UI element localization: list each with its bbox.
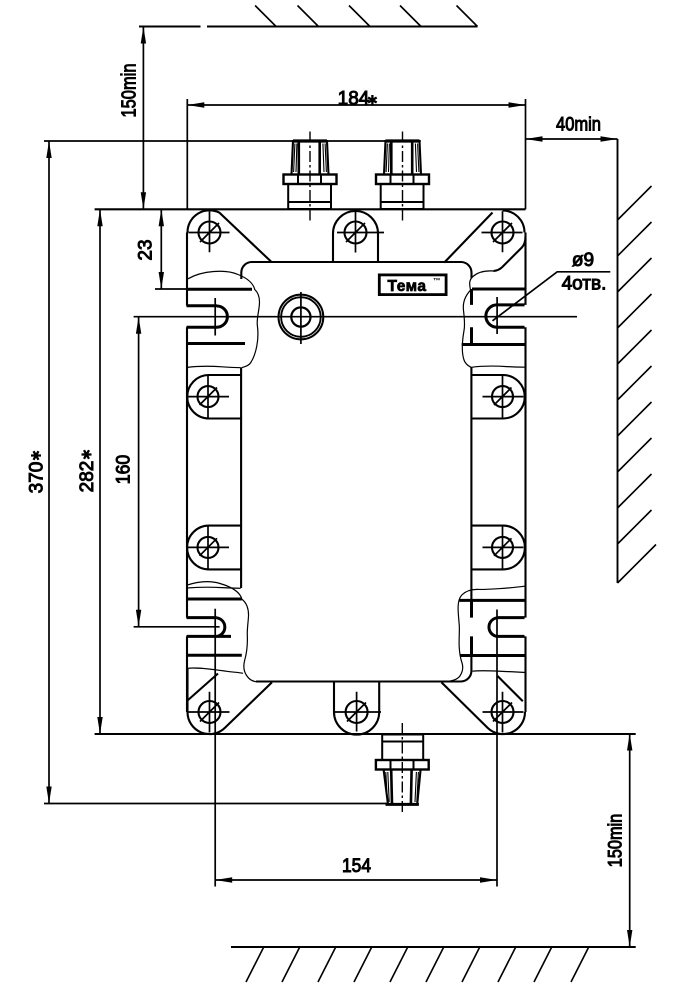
svg-text:370: 370 <box>27 462 48 494</box>
lid left edge <box>240 368 242 589</box>
dimension 184* <box>187 99 525 209</box>
slot tab upper-right <box>462 289 525 345</box>
corner lug top-right <box>444 211 525 272</box>
corner lug bottom-right <box>442 676 526 734</box>
svg-text:160: 160 <box>114 455 135 485</box>
center lug top <box>333 211 378 262</box>
lid right edge <box>470 367 472 600</box>
hole side left upper <box>198 386 219 407</box>
dimension 154 <box>215 609 497 887</box>
hole bottom-left <box>199 701 221 723</box>
slot tab lower-left <box>187 599 242 655</box>
box top edge <box>95 208 526 210</box>
side lug right upper <box>471 375 524 419</box>
lid bottom edge with corner <box>256 656 471 682</box>
cable gland bottom <box>376 723 429 814</box>
side lug left lower <box>187 526 241 570</box>
svg-text:154: 154 <box>342 856 371 877</box>
hole side right upper <box>492 386 513 407</box>
side lug left upper <box>187 375 240 419</box>
boss circle <box>279 295 324 340</box>
box bottom edge <box>95 733 636 735</box>
dimension 150min top <box>142 27 144 210</box>
hole bottom-right <box>492 701 514 723</box>
slot tab upper-left <box>187 289 253 343</box>
svg-text:282: 282 <box>77 461 98 493</box>
dimension 23 <box>155 209 187 289</box>
box left edge segments <box>186 233 188 713</box>
ceiling hatches <box>255 6 477 27</box>
dimension 40min <box>526 138 618 140</box>
dimension 150min bottom <box>629 734 631 948</box>
hole top-center <box>345 222 367 244</box>
dimension 160 <box>138 317 140 627</box>
center lug bottom <box>334 682 379 735</box>
cast boss outline lower-left <box>187 582 256 682</box>
hole side left lower <box>198 537 219 558</box>
logo Tema plate <box>379 275 446 295</box>
svg-text:4отв.: 4отв. <box>562 274 607 295</box>
slot tab lower-right <box>460 600 525 655</box>
box right edge segments <box>524 233 526 713</box>
floor hatches <box>246 948 589 983</box>
hole top-left <box>199 222 221 244</box>
cast boss outline upper-left <box>188 271 259 368</box>
cast band edge above bottom-right lug <box>473 671 527 673</box>
svg-text:150min: 150min <box>119 64 141 118</box>
svg-text:Тема: Тема <box>388 278 427 295</box>
svg-text:184: 184 <box>338 89 370 110</box>
svg-text:23: 23 <box>136 239 157 260</box>
cast band edge above bottom-left lug <box>188 668 243 673</box>
cable gland top-left <box>284 132 337 223</box>
side boss top edge right <box>471 366 524 367</box>
dimension 282* <box>99 209 101 734</box>
hole side right lower <box>492 537 513 558</box>
svg-text:ø9: ø9 <box>572 250 594 271</box>
cable gland top-right <box>376 132 429 223</box>
hole top-right <box>492 222 514 244</box>
side boss bottom edge left <box>187 587 241 588</box>
slot centerline upper-left <box>214 298 216 336</box>
cast boss outline upper-right <box>462 271 493 368</box>
floor line <box>231 946 636 948</box>
corner lug top-left <box>187 210 271 262</box>
corner lug bottom-left <box>187 669 271 735</box>
dimension 370* <box>44 141 421 804</box>
ceiling line <box>139 26 478 28</box>
lid top edge with corners <box>241 262 471 279</box>
svg-text:™: ™ <box>433 276 441 285</box>
main slot centerline horizontal <box>134 316 577 318</box>
cast boss outline lower-right <box>446 586 525 682</box>
hole bottom-center <box>346 701 368 723</box>
svg-text:40min: 40min <box>556 115 601 136</box>
slot centerline lower-left <box>134 626 220 628</box>
slot centerline upper-right <box>496 297 498 334</box>
side lug right lower <box>471 526 525 570</box>
wall hatches <box>618 186 657 583</box>
side boss top edge left <box>187 366 241 367</box>
leader line diameter 9 4otv <box>493 272 611 321</box>
svg-text:150min: 150min <box>606 814 627 868</box>
wall line right <box>617 139 619 583</box>
